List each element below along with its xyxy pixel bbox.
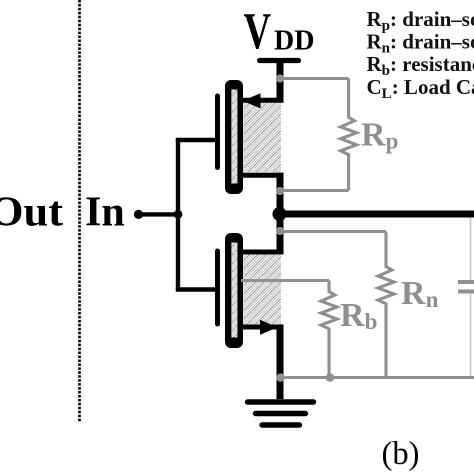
resistor Rn <box>378 232 394 378</box>
svg-text:V: V <box>244 3 272 60</box>
wire: VDD stem <box>277 61 284 103</box>
svg-text:Rb: Rb <box>340 297 377 334</box>
wire: drain to output node <box>277 173 284 255</box>
svg-text:Out: Out <box>0 190 63 236</box>
capacitor CL stem lower <box>470 292 472 376</box>
capacitor CL plates (clipped at edge) <box>458 280 474 284</box>
wire: source to ground stem <box>277 325 284 400</box>
resistor Rb <box>321 281 337 378</box>
junction node: ground rail tap <box>276 373 285 382</box>
wire: Rn top connection <box>280 230 386 233</box>
svg-text:(b): (b) <box>382 436 420 472</box>
transistor Q2 (NMOS) channel bar <box>225 233 243 348</box>
capacitor CL stem upper <box>470 218 472 282</box>
junction node: Rp bottom tap <box>276 187 284 195</box>
wire: Rb top connection <box>241 279 329 282</box>
dotted boundary line between circuits (a) and (b) <box>78 0 81 422</box>
transistor Q2 channel slot <box>231 243 237 338</box>
wire: PMOS drain terminal <box>243 173 284 178</box>
junction node: Rp top tap <box>276 74 284 82</box>
resistor Rp <box>341 79 357 191</box>
transistor Q1 channel slot <box>231 90 237 184</box>
svg-text:DD: DD <box>274 26 314 57</box>
wire: output line to the right <box>280 211 474 218</box>
wire: NMOS drain terminal <box>243 250 284 255</box>
NMOS source arrow (pointing out to source) <box>260 320 277 335</box>
PMOS source arrow (pointing into channel) <box>243 93 261 108</box>
PMOS drain-source hatched region <box>243 103 281 173</box>
wire: NMOS source terminal <box>243 325 284 330</box>
wire: Rp bottom connection <box>280 189 349 192</box>
junction node: Rn top tap <box>276 227 284 235</box>
transistor Q1 (PMOS) channel bar <box>225 80 243 194</box>
input node dot <box>134 210 143 219</box>
wire: NMOS gate horizontal <box>176 287 218 291</box>
svg-text:Rn: Rn <box>401 275 439 312</box>
wire: Rp top connection <box>280 77 349 80</box>
wire: gate feed vertical <box>176 140 180 290</box>
ground symbol <box>248 402 314 425</box>
transistor Q1 (PMOS) gate electrode <box>215 96 220 168</box>
svg-text:Rp: Rp <box>361 117 398 154</box>
junction: gate stem tee <box>174 210 183 219</box>
wire: In node to gate stem <box>139 212 179 216</box>
NMOS drain-source hatched region <box>243 255 281 325</box>
wire: PMOS gate horizontal <box>176 138 218 142</box>
transistor Q2 (NMOS) gate electrode <box>215 251 220 324</box>
wire: PMOS source terminal <box>243 98 284 103</box>
svg-text:In: In <box>85 190 125 236</box>
output node <box>273 207 287 221</box>
junction node: Rb bottom tap <box>326 373 335 382</box>
power rail bar VDD <box>260 58 299 63</box>
wire: gray ground rail <box>281 376 474 379</box>
